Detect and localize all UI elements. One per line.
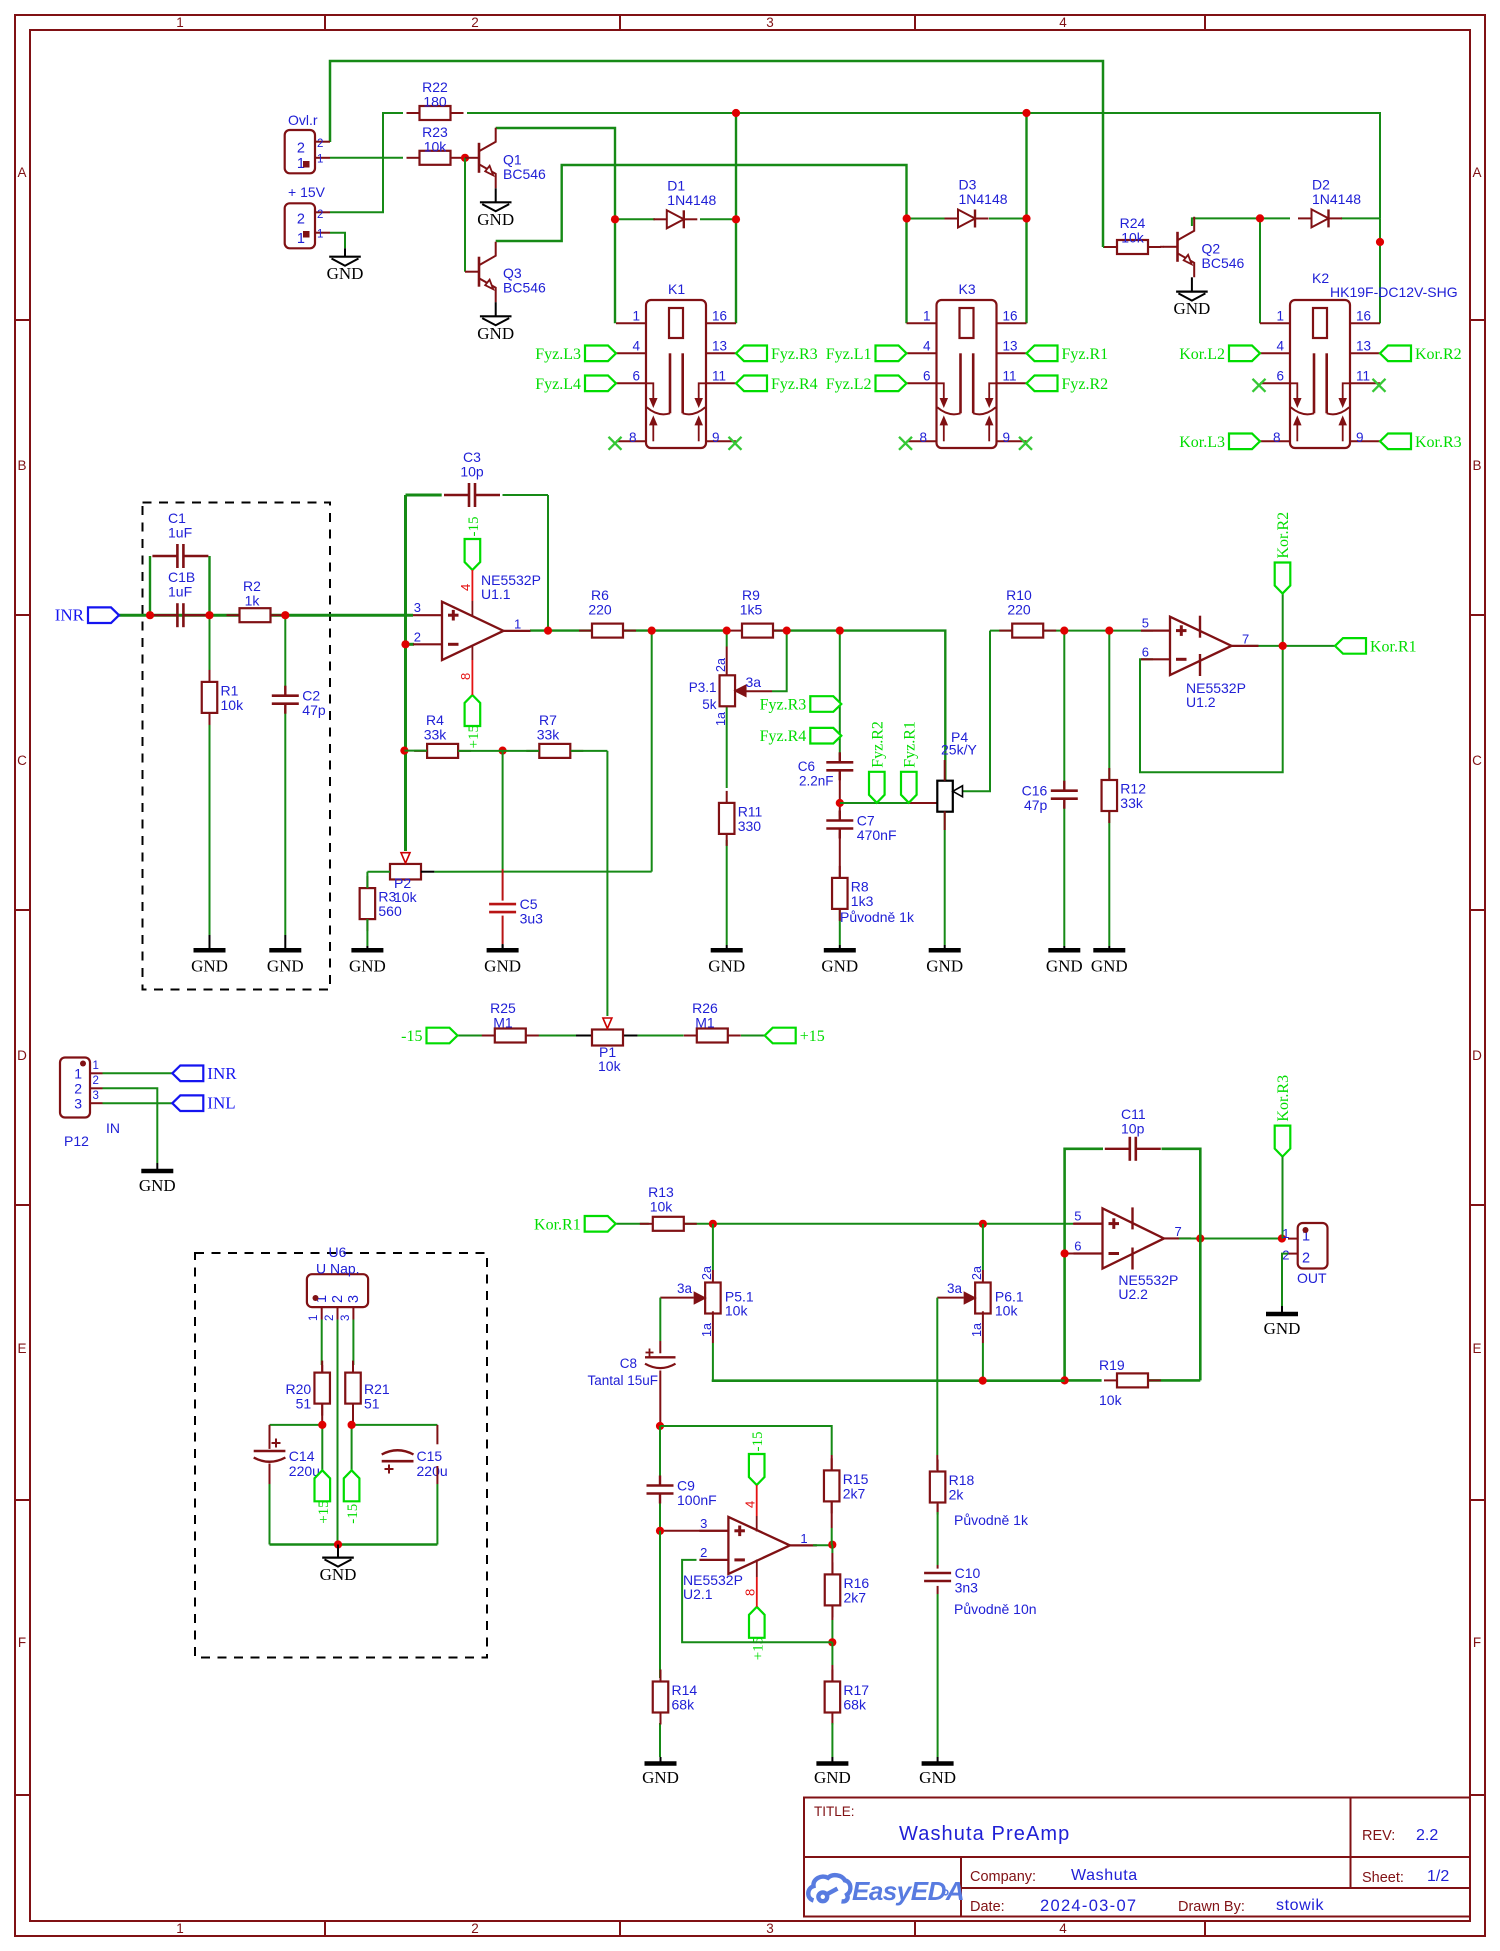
net flag +15 (P1) [765,1028,825,1045]
svg-text:11: 11 [712,369,726,384]
junction [146,611,154,619]
potentiometer P1 [592,1018,623,1074]
svg-text:D: D [1472,1048,1482,1063]
svg-text:R19: R19 [1099,1357,1125,1373]
capacitor C16 [1022,781,1078,814]
label P3.1 [689,680,717,712]
svg-text:C8: C8 [620,1356,637,1371]
svg-text:Drawn By:: Drawn By: [1178,1899,1245,1915]
ground (R14) [642,1757,679,1787]
wire (C3 top link) [406,494,549,497]
svg-text:Kor.R3: Kor.R3 [1415,434,1462,451]
wire (R7 node down to P1) [606,751,608,1016]
svg-text:GND: GND [919,1768,956,1787]
resistor R7 [526,712,583,758]
wire (R17 top) [831,1642,833,1682]
svg-text:Fyz.R2: Fyz.R2 [1062,376,1109,393]
resistor R10 [999,587,1056,638]
svg-text:1: 1 [514,616,521,631]
wire (P6.1 1a) [982,1311,984,1380]
wire (pin6 stub U2.2) [1065,1253,1103,1255]
wire (Ovl.r pin1 to R23) [330,157,403,159]
svg-text:10k: 10k [1121,230,1145,246]
wire (U6 pin3 to R21) [352,1320,354,1373]
wire (P5.1 wiper arm) [660,1298,694,1341]
svg-text:2k: 2k [949,1487,965,1503]
wire (R11 bottom) [726,840,728,945]
svg-text:7: 7 [1175,1224,1182,1239]
junction [732,215,740,223]
svg-text:3: 3 [346,1295,362,1303]
wire (P6.1 2a) [982,1224,984,1283]
svg-text:6: 6 [923,369,931,384]
svg-text:4: 4 [923,339,931,354]
title block frame [804,1798,1470,1917]
wire (main bus y1380) [712,1379,1065,1382]
junction [281,611,289,619]
svg-text:10k: 10k [650,1199,674,1215]
svg-text:Sheet:: Sheet: [1362,1870,1404,1886]
svg-text:25k/Y: 25k/Y [941,742,977,758]
wire (C15 bottom) [436,1466,438,1545]
wire (R21 bottom) [352,1403,354,1425]
wire (R12 bottom) [1108,811,1110,947]
wire (Q2 collector to D2/K2) [1192,218,1260,226]
svg-text:BC546: BC546 [1202,255,1245,271]
svg-text:U2.2: U2.2 [1118,1286,1148,1302]
wire (P4 bottom gnd) [944,811,946,945]
net flag -15 (P1) [401,1028,457,1045]
junction [828,1541,836,1549]
svg-text:3: 3 [766,1921,774,1936]
wire (C14 top lead) [269,1425,271,1449]
wire (C16 bottom) [1063,802,1065,947]
svg-text:3: 3 [700,1516,707,1531]
resistor R13 [640,1184,697,1231]
relay K3 [907,281,1027,448]
ground (U6) [320,1545,357,1585]
wire (P2 left to R3) [367,872,390,888]
ground (Q3 emitter) [477,302,514,343]
resistor R4 [414,712,471,758]
svg-text:GND: GND [267,957,304,976]
ground (C16) [1046,946,1083,976]
wire (U2.2 out) [1179,1238,1282,1240]
wire (+15 drop) [321,1425,323,1470]
capacitor C6 [826,752,853,780]
wire (pin6 node U2.2) [1063,1224,1066,1381]
svg-text:2: 2 [471,15,479,30]
svg-text:3u3: 3u3 [520,911,544,927]
ground (P4) [926,945,963,976]
relay K1 [616,281,736,448]
diode D3 [945,177,1008,228]
svg-text:EasyEDA: EasyEDA [852,1876,964,1906]
capacitor C14 [254,1439,320,1480]
svg-text:1: 1 [1276,309,1284,324]
svg-text:1: 1 [317,229,323,241]
svg-text:6: 6 [1142,644,1149,659]
svg-text:11: 11 [1356,369,1370,384]
svg-text:6: 6 [632,369,640,384]
wire (R1 top) [209,615,211,671]
potentiometer P6.1 [964,1283,1024,1319]
svg-text:Washuta: Washuta [1071,1867,1138,1884]
svg-text:6: 6 [1276,369,1284,384]
wire (P3.1 bottom to R11) [726,707,728,788]
svg-text:1/2: 1/2 [1427,1868,1449,1885]
ground (R1) [191,935,228,976]
diode D1 [653,177,716,228]
svg-text:Fyz.R2: Fyz.R2 [869,721,886,768]
wire (P12 pin3 to INL) [103,1102,173,1104]
svg-text:3a: 3a [746,674,762,690]
net flag Fyz.R1 (mid) [901,721,918,803]
svg-text:TITLE:: TITLE: [814,1804,855,1819]
junction [544,627,552,635]
ground (C10) [919,1757,956,1787]
wire (C10 bottom) [937,1586,939,1757]
wire (U1.2 out) [1247,645,1336,647]
connector OUT [1282,1223,1327,1286]
relay K2 [1260,270,1458,448]
svg-text:2k7: 2k7 [843,1485,866,1501]
connector Ovl.r [285,112,330,173]
power flag +15 (U1.1 pin8) [465,695,482,749]
svg-text:C: C [17,753,27,768]
junction [648,627,656,635]
potentiometer P2 [390,853,421,905]
junction [1060,627,1068,635]
svg-text:6: 6 [1074,1239,1081,1254]
wire (Kor.R3 drop) [1282,1157,1284,1239]
svg-text:D: D [17,1048,27,1063]
wire (R15 bottom) [831,1502,833,1545]
svg-text:1N4148: 1N4148 [667,192,716,208]
svg-text:4: 4 [743,1501,758,1508]
svg-text:B: B [1472,458,1481,473]
svg-text:INR: INR [55,606,85,625]
svg-text:Fyz.L1: Fyz.L1 [826,346,872,363]
svg-text:10k: 10k [995,1303,1019,1319]
note (R18 original) [954,1512,1029,1528]
wire (R14 bottom) [659,1723,661,1757]
pin label 1a (P5.1) [700,1323,714,1337]
svg-text:2a: 2a [970,1266,984,1280]
potentiometer P5.1 [694,1283,754,1319]
wire (R12 top) [1108,631,1110,781]
svg-text:U6: U6 [329,1244,347,1260]
wire (Q1 emitter gnd stub) [0,0,1,1]
resistor R20 [286,1361,330,1416]
svg-text:13: 13 [1003,339,1018,354]
wire (K1 pin16 riser) [735,113,737,323]
wire (U1.2 feedback) [1140,646,1283,772]
no-connect x (K2 pin6) [1253,379,1266,392]
svg-text:8: 8 [458,673,473,680]
svg-text:1a: 1a [714,712,728,726]
ground (P12) [139,1163,176,1195]
svg-text:10k: 10k [221,697,245,713]
svg-text:INL: INL [207,1094,235,1113]
op-amp U1.1 [413,572,541,660]
no-connect x (K2 pin11) [1373,379,1386,392]
pin label 3a (P6.1) [947,1281,963,1296]
svg-text:M1: M1 [695,1015,715,1031]
potentiometer P4 [937,729,977,830]
svg-text:E: E [1472,1341,1481,1356]
pin label 3a (P3.1) [746,674,762,690]
capacitor C5 [489,896,543,927]
note (C10 original) [954,1601,1037,1617]
svg-text:Kor.L3: Kor.L3 [1179,434,1225,451]
wire (C1 left leg) [149,556,151,615]
junction [400,747,408,755]
svg-text:2.2nF: 2.2nF [799,774,834,789]
junction [709,1220,717,1228]
svg-text:9: 9 [1003,430,1011,445]
svg-text:P3.1: P3.1 [689,680,717,695]
svg-text:OUT: OUT [1297,1270,1327,1286]
wire (R19 link) [1065,1379,1201,1382]
junction [611,215,619,223]
svg-text:2024-03-07: 2024-03-07 [1040,1897,1137,1915]
junction [656,1422,664,1430]
junction [732,109,740,117]
svg-text:10k: 10k [1099,1392,1123,1408]
ground (R17) [814,1757,851,1787]
svg-text:8: 8 [629,430,637,445]
svg-text:Fyz.L4: Fyz.L4 [535,376,581,393]
svg-text:2: 2 [74,1081,82,1097]
junction [1278,1234,1286,1242]
wire (pin2 node down to P2) [404,495,407,851]
label R19 [1099,1357,1125,1408]
wire (Kor.R2 drop) [1282,594,1284,646]
resistor R15 [824,1458,869,1513]
svg-text:13: 13 [1356,339,1371,354]
net flag Fyz.R2 (K3) [1027,376,1109,393]
svg-text:GND: GND [477,324,514,343]
svg-text:16: 16 [1356,309,1371,324]
svg-text:1uF: 1uF [168,525,192,541]
connector P12 [60,1058,120,1150]
transistor Q2 [1164,217,1245,277]
resistor R2 [227,578,284,622]
pin label 1a (P3.1) [714,712,728,726]
svg-text:2: 2 [324,1315,336,1321]
svg-text:4: 4 [1059,1921,1067,1936]
resistor R25 [482,1000,539,1043]
svg-text:GND: GND [1264,1319,1301,1338]
wire (U6 pin2 down) [337,1320,339,1545]
wire (R24 feed) [1103,246,1118,248]
svg-text:2: 2 [93,1075,99,1087]
svg-text:Kor.R1: Kor.R1 [1370,638,1417,655]
resistor R21 [345,1361,390,1416]
svg-text:2a: 2a [700,1266,714,1280]
svg-text:68k: 68k [672,1697,696,1713]
svg-text:GND: GND [821,957,858,976]
capacitor C10 [924,1565,980,1596]
svg-text:GND: GND [1091,957,1128,976]
svg-text:Kor.R3: Kor.R3 [1275,1075,1292,1122]
junction [1196,1234,1204,1242]
wire (P12 pin2 to gnd) [103,1088,158,1163]
ground (R11) [708,945,745,976]
junction [723,627,731,635]
wire (+15V pin1 to gnd) [330,233,345,249]
resistor R8 [832,866,874,921]
ground (C2) [267,935,304,976]
wire (R22 left to +15V pin2) [330,113,403,212]
capacitor C9 [647,1476,717,1509]
wire (-15 to R25) [458,1035,483,1037]
wire (D2 cathode to K2 pin16) [1341,218,1380,323]
svg-text:C6: C6 [798,759,815,774]
op-amp U2.1 [683,1516,817,1602]
svg-text:16: 16 [1003,309,1018,324]
ground (Q2 emitter) [1173,277,1210,318]
wire (P5.1 1a) [712,1311,713,1380]
svg-text:51: 51 [364,1396,380,1412]
svg-text:16: 16 [712,309,727,324]
svg-text:1N4148: 1N4148 [959,191,1008,207]
svg-text:P12: P12 [64,1133,89,1149]
wire (C6/C7 node flags) [840,802,909,804]
net flag INR [55,606,119,625]
wire (R16 bottom) [831,1606,833,1642]
wire (R18 top) [936,1455,938,1470]
junction [903,214,911,222]
wire (R22 out rail y=113) [467,113,1380,218]
svg-text:1: 1 [317,154,323,166]
svg-text:Tantal 15uF: Tantal 15uF [587,1373,658,1388]
pin label 2a (P6.1) [970,1266,984,1280]
no-connect x (K1 pin9) [729,437,742,450]
svg-text:GND: GND [484,957,521,976]
svg-text:330: 330 [738,818,762,834]
capacitor C1B [152,569,208,627]
wire (K2 pin1 riser) [1259,218,1261,323]
svg-text:U1.1: U1.1 [481,586,511,602]
svg-text:2: 2 [1302,1251,1310,1267]
svg-text:47p: 47p [302,702,326,718]
capacitor C2 [272,686,326,719]
wire (P1 to R26) [623,1035,684,1037]
wire (R24 to Q2 base) [1160,246,1164,248]
wire (R10 out) [1044,630,1154,632]
svg-text:2: 2 [700,1545,707,1560]
resistor R19 [1104,1373,1161,1387]
wire (P6.1 wiper arm) [937,1298,964,1455]
wire (D3 link) [907,218,1027,220]
junction [1061,1249,1069,1257]
svg-text:9: 9 [1356,430,1364,445]
wire (C5 bottom) [502,916,504,951]
resistor R17 [825,1670,870,1725]
resistor R18 [930,1460,975,1515]
wire (P5.1 2a) [712,1224,714,1283]
svg-text:U1.2: U1.2 [1186,694,1216,710]
resistor R9 [729,587,786,638]
wire (P4 wiper to R10) [962,631,990,792]
net flag INR (P12) [172,1064,237,1083]
svg-text:Kor.R1: Kor.R1 [534,1216,581,1233]
svg-text:10p: 10p [460,464,484,480]
wire (C8 top lead) [659,1341,661,1353]
net flag Kor.R1 (out) [1335,638,1417,655]
wire (top +12V rail) [330,61,1103,247]
svg-text:Washuta PreAmp: Washuta PreAmp [899,1823,1070,1845]
capacitor C8 [587,1349,675,1389]
net flag Fyz.R2 (mid) [869,721,886,803]
wire (R1 bottom) [209,712,211,935]
svg-text:3: 3 [74,1096,82,1112]
wire (D2 anode stub) [1260,217,1290,219]
wire (pin5 stub U2.2) [1073,1223,1103,1225]
wire (R25 to P1) [526,1035,592,1037]
svg-text:GND: GND [477,210,514,229]
wire (P12 pin1 to INR) [103,1072,173,1074]
svg-text:13: 13 [712,339,727,354]
wire (Q3 collector to K3 pin1) [496,165,907,323]
op-amp U2.2 [1074,1207,1192,1302]
svg-text:Fyz.R1: Fyz.R1 [901,721,918,768]
pin label 3a (P5.1) [677,1281,693,1296]
wire (C15 top lead) [436,1425,438,1444]
svg-text:Fyz.R1: Fyz.R1 [1062,346,1109,363]
svg-text:2: 2 [297,141,305,157]
wire (Kor.R1 to R13) [616,1223,649,1225]
EasyEDA logo [808,1875,964,1906]
net flag Fyz.R3 (mid) [760,696,842,713]
svg-text:4: 4 [1276,339,1284,354]
svg-text:47p: 47p [1024,797,1048,813]
U6 dashed box [195,1253,487,1658]
svg-text:3n3: 3n3 [955,1580,979,1596]
svg-text:10k: 10k [424,139,448,155]
svg-text:220u: 220u [417,1463,448,1479]
junction [499,747,507,755]
wire (R7 right) [571,750,608,752]
svg-text:Ovl.r: Ovl.r [288,112,318,128]
svg-text:Kor.R2: Kor.R2 [1415,346,1462,363]
wire (C8 node to R15) [660,1426,832,1455]
svg-text:Fyz.R4: Fyz.R4 [771,376,818,393]
net flag Fyz.R1 (K3) [1027,346,1109,363]
connector P +15V [285,184,330,248]
resistor R26 [684,1000,741,1043]
junction [656,1527,664,1535]
svg-text:A: A [1472,165,1481,180]
svg-text:1: 1 [923,309,931,324]
svg-text:Fyz.L2: Fyz.L2 [826,376,872,393]
junction [828,1638,836,1646]
wire (INR to pin3) [119,614,413,617]
svg-text:8: 8 [919,430,927,445]
junction [1105,627,1113,635]
svg-text:GND: GND [708,957,745,976]
svg-text:33k: 33k [537,727,561,743]
capacitor C3 [444,449,500,507]
svg-text:Fyz.R4: Fyz.R4 [760,728,807,745]
wire (R4 left) [404,750,427,752]
wire (R18 to C10) [937,1504,939,1569]
power flag -15 (U2.1 pin4) [749,1432,766,1486]
junction [205,611,213,619]
svg-text:-15: -15 [401,1028,422,1045]
